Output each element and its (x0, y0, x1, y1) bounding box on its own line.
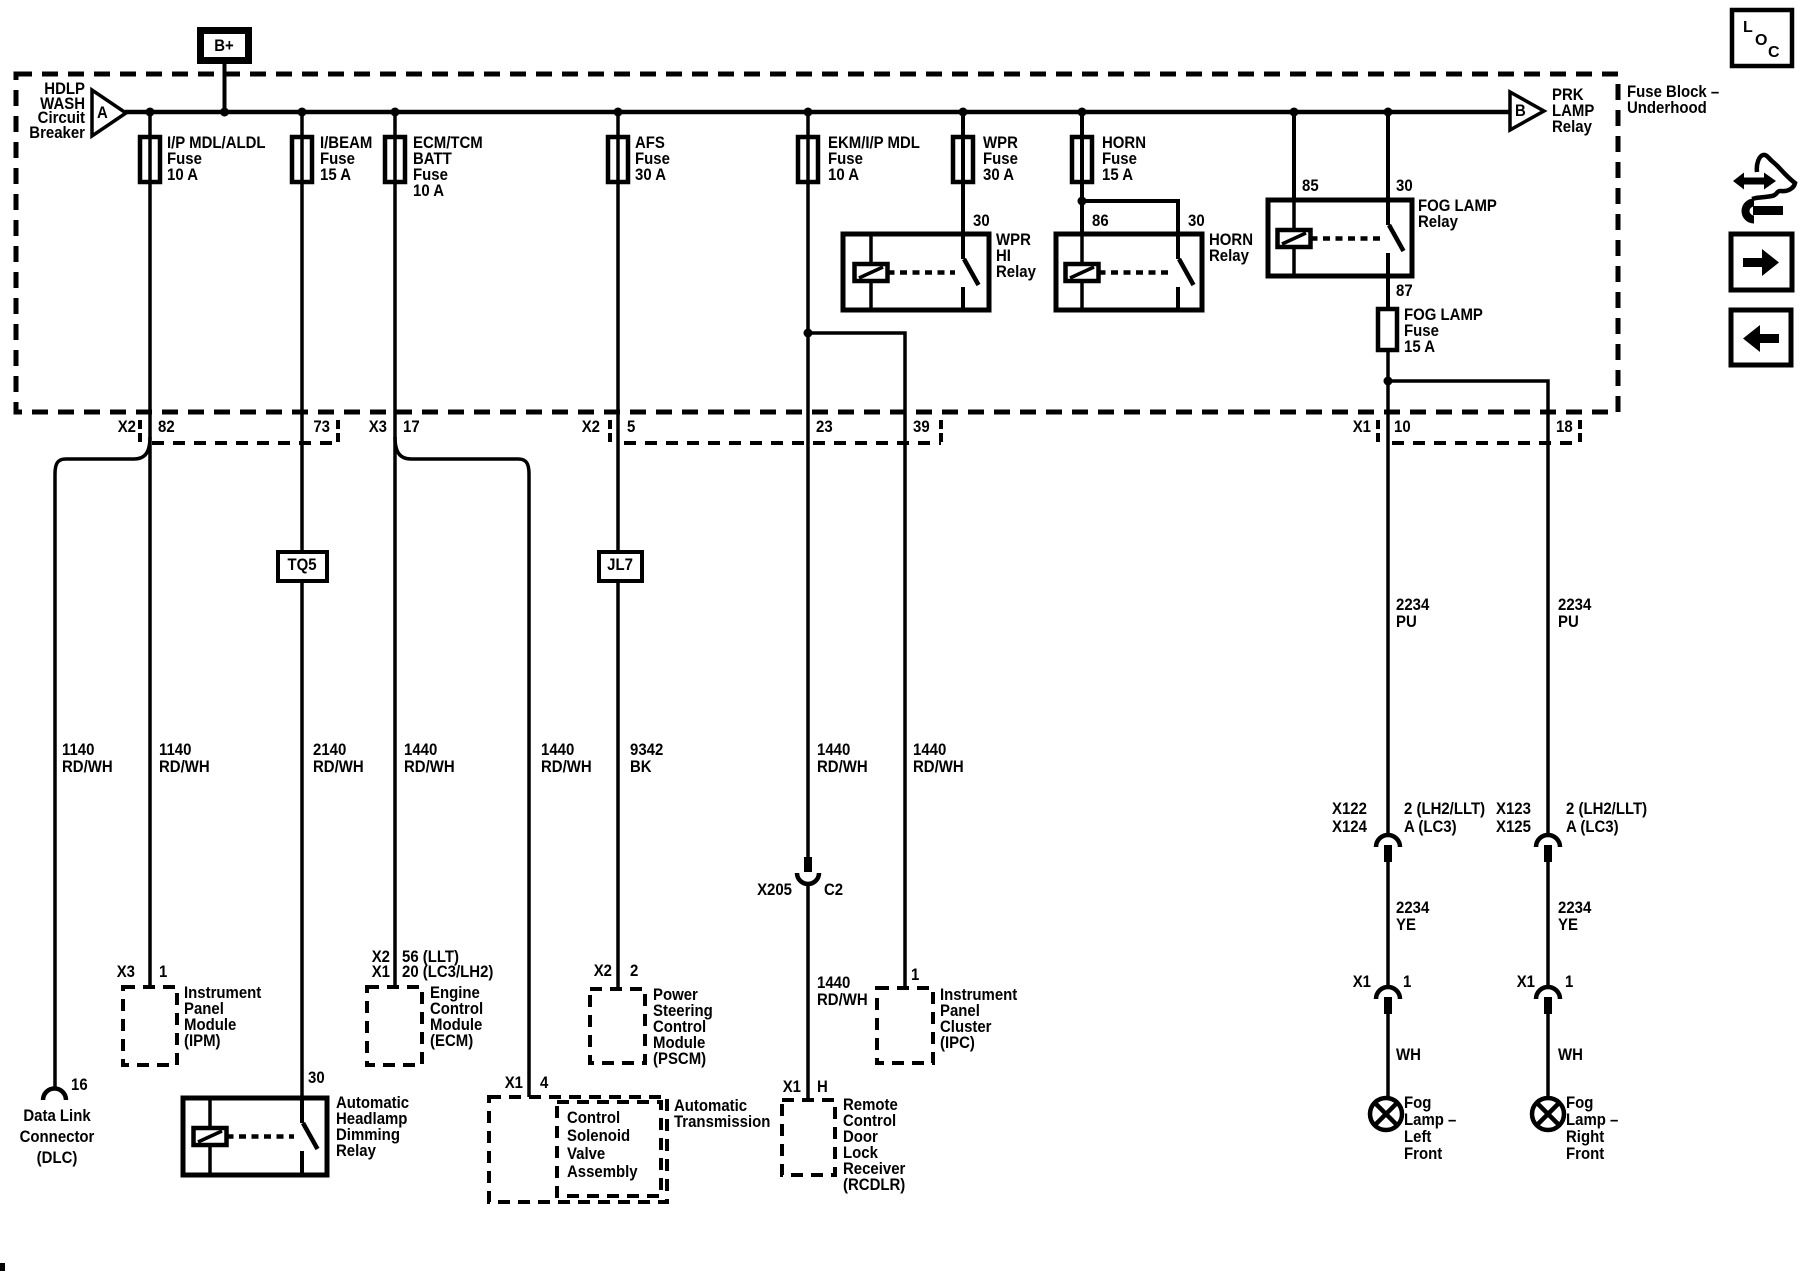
wire label 1140 RD/WH (IPM) (159, 741, 210, 776)
svg-text:15 A: 15 A (1404, 338, 1435, 356)
pins X1 4 (CSVA) (505, 1074, 549, 1092)
battery feed B+ symbol (201, 31, 249, 61)
wire WPR fuse to WPR relay (961, 112, 965, 234)
svg-text:X1: X1 (505, 1074, 523, 1092)
wire X1 to left fog lamp (WH) (1386, 1014, 1390, 1098)
svg-text:X1: X1 (783, 1078, 801, 1096)
svg-text:RD/WH: RD/WH (817, 758, 868, 776)
svg-text:RD/WH: RD/WH (62, 758, 113, 776)
pin 16 label (DLC) (71, 1076, 88, 1094)
svg-text:PU: PU (1396, 613, 1417, 631)
label Control Solenoid Valve Assembly (567, 1109, 638, 1181)
wire EKM/I/P MDL fuse to RCDLR (1440 RD/WH) (806, 112, 810, 857)
connector X3 (pin 17) labels (369, 418, 420, 436)
LOC reference box (1732, 10, 1792, 66)
svg-text:Relay: Relay (1209, 247, 1249, 265)
svg-text:H: H (817, 1078, 828, 1096)
label Engine Control Module (ECM) (430, 984, 483, 1050)
svg-text:(DLC): (DLC) (37, 1149, 78, 1167)
inline connector X123/X125 (right fog lamp) (1536, 835, 1560, 862)
right front fog lamp (1532, 1098, 1564, 1130)
junction fog lamp feed split (1384, 377, 1393, 386)
svg-text:X1: X1 (1353, 973, 1371, 991)
label Instrument Panel Cluster (IPC) (940, 986, 1018, 1052)
svg-text:RD/WH: RD/WH (913, 758, 964, 776)
labels X1 1 (right fog lamp) (1517, 973, 1574, 991)
label Fuse Block - Underhood (1627, 83, 1719, 117)
harness routing icon (double arrow with scribble and wrench) (1733, 155, 1795, 220)
label Power Steering Control Module (PSCM) (653, 986, 713, 1068)
svg-text:X1: X1 (372, 963, 390, 981)
junction bus/fog relay switch (1384, 108, 1393, 117)
fuse WPR 30 A (953, 134, 1018, 184)
pin 86 label (HORN relay) (1092, 212, 1109, 230)
svg-text:A: A (97, 104, 108, 122)
bus wire (battery positive rail) (125, 110, 1510, 115)
relay HORN (1056, 234, 1202, 310)
svg-text:Relay: Relay (1552, 118, 1592, 136)
svg-text:X2: X2 (582, 418, 600, 436)
fuse I/BEAM 15 A (292, 134, 372, 184)
wire AFS fuse to PSCM (9342 BK) (616, 112, 620, 989)
svg-text:BK: BK (630, 758, 652, 776)
inline connector X205 C2 (797, 857, 819, 884)
svg-text:Relay: Relay (336, 1142, 376, 1160)
label FOG LAMP Relay (1418, 197, 1497, 231)
svg-text:RD/WH: RD/WH (817, 991, 868, 1009)
svg-text:JL7: JL7 (607, 556, 633, 574)
svg-text:1440: 1440 (541, 741, 574, 759)
junction bus/EKM/I/P MDL fuse (804, 108, 813, 117)
label HORN Relay (1209, 231, 1253, 265)
svg-text:2 (LH2/LLT): 2 (LH2/LLT) (1404, 800, 1485, 818)
wire label 1440 RD/WH (IPC) (913, 741, 964, 776)
svg-text:Breaker: Breaker (29, 124, 85, 142)
svg-text:Connector: Connector (20, 1128, 95, 1146)
svg-text:Assembly: Assembly (567, 1163, 638, 1181)
power steering control module (PSCM) box (590, 989, 645, 1063)
label Automatic Transmission (674, 1097, 770, 1131)
pin 30 label (WPR HI relay) (973, 212, 990, 230)
svg-text:Lamp –: Lamp – (1566, 1111, 1618, 1129)
junction bus/fog relay coil (1290, 108, 1299, 117)
svg-text:30 A: 30 A (983, 166, 1014, 184)
label Remote Control Door Lock Receiver (RCDLR) (843, 1096, 905, 1194)
svg-text:16: 16 (71, 1076, 88, 1094)
svg-text:(IPC): (IPC) (940, 1034, 975, 1052)
fuse block - underhood dashed border (16, 74, 1618, 412)
connector X1 pin 1 (left fog lamp) (1376, 987, 1400, 1014)
wire HORN fuse to HORN relay pin 86 (1080, 112, 1084, 234)
junction EKM wire / IPC branch (804, 329, 813, 338)
svg-text:X2: X2 (594, 962, 612, 980)
junction B+/bus (220, 108, 229, 117)
forward page arrow box (1731, 234, 1792, 290)
svg-text:2 (LH2/LLT): 2 (LH2/LLT) (1566, 800, 1647, 818)
svg-text:(PSCM): (PSCM) (653, 1050, 706, 1068)
wire label WH (right fog lamp) (1558, 1046, 1583, 1064)
instrument panel cluster (IPC) box (877, 988, 933, 1063)
data link connector (DLC) pin 16 arc (43, 1089, 66, 1101)
svg-text:87: 87 (1396, 282, 1413, 300)
left front fog lamp (1370, 1098, 1402, 1130)
svg-text:TQ5: TQ5 (287, 556, 316, 574)
svg-text:WH: WH (1396, 1046, 1421, 1064)
svg-text:X3: X3 (369, 418, 387, 436)
svg-text:30: 30 (308, 1069, 325, 1087)
wire label 2140 RD/WH (dimming relay) (313, 741, 364, 776)
svg-text:PU: PU (1558, 613, 1579, 631)
wire X123 to X1 (2234 YE right) (1546, 862, 1550, 987)
wire I/P MDL/ALDL fuse to IPM (1140 RD/WH) (148, 112, 152, 987)
wire branch to HORN relay pin 30 (1082, 201, 1178, 234)
wire label 1140 RD/WH (DLC) (62, 741, 113, 776)
svg-text:WH: WH (1558, 1046, 1583, 1064)
svg-text:9342: 9342 (630, 741, 663, 759)
wire label 2234 PU (left) (1396, 596, 1429, 631)
fuse ECM/TCM BATT 10 A (385, 134, 483, 200)
svg-text:Solenoid: Solenoid (567, 1127, 630, 1145)
svg-text:1440: 1440 (817, 974, 850, 992)
junction bus/ECM/TCM BATT fuse (391, 108, 400, 117)
svg-text:1: 1 (1403, 973, 1411, 991)
circuit breaker A (HDLP WASH) triangle (92, 90, 126, 136)
remote control door lock receiver (RCDLR) box (782, 1100, 835, 1175)
svg-text:Relay: Relay (1418, 213, 1458, 231)
svg-text:A (LC3): A (LC3) (1566, 818, 1619, 836)
junction bus/HORN fuse (1078, 108, 1087, 117)
svg-text:B: B (1515, 102, 1526, 120)
svg-text:1440: 1440 (817, 741, 850, 759)
instrument panel module (IPM) box (123, 987, 177, 1065)
svg-text:30: 30 (973, 212, 990, 230)
svg-text:RD/WH: RD/WH (404, 758, 455, 776)
svg-text:73: 73 (313, 418, 330, 436)
wire label 1440 RD/WH (RCDLR lower) (817, 974, 868, 1009)
wire X1 to right fog lamp (WH) (1546, 1014, 1550, 1098)
svg-text:15 A: 15 A (1102, 166, 1133, 184)
svg-text:X2: X2 (118, 418, 136, 436)
svg-text:86: 86 (1092, 212, 1109, 230)
svg-text:17: 17 (403, 418, 420, 436)
svg-text:39: 39 (913, 418, 930, 436)
svg-text:1440: 1440 (404, 741, 437, 759)
svg-text:4: 4 (540, 1074, 548, 1092)
labels X122 X124 pins (1332, 800, 1485, 836)
wire label 1440 RD/WH (CSVA) (541, 741, 592, 776)
junction HORN fuse / pin 30 branch (1078, 197, 1087, 206)
svg-text:O: O (1755, 32, 1767, 49)
svg-text:2234: 2234 (1558, 899, 1591, 917)
relay FOG LAMP (1268, 200, 1412, 276)
label Fog Lamp - Right Front (1566, 1094, 1618, 1163)
pin 87 label (FOG LAMP relay) (1396, 282, 1413, 300)
svg-text:30: 30 (1188, 212, 1205, 230)
fuse FOG LAMP 15 A (1378, 306, 1483, 356)
back page arrow box (1731, 310, 1791, 365)
automatic headlamp dimming relay (183, 1098, 327, 1175)
svg-text:2: 2 (630, 962, 638, 980)
svg-text:1: 1 (911, 966, 919, 984)
svg-text:X205: X205 (757, 881, 792, 899)
connector X1 (pins 10, 18) strip (1353, 418, 1580, 443)
svg-text:1: 1 (159, 963, 167, 981)
relay WPR HI (843, 234, 989, 310)
fuse EKM/I/P MDL 10 A (798, 134, 920, 184)
label Data Link Connector (DLC) (20, 1107, 95, 1167)
control solenoid valve assembly box (557, 1102, 661, 1196)
label Automatic Headlamp Dimming Relay (336, 1094, 409, 1160)
wire X122 to X1 (2234 YE left) (1386, 862, 1390, 987)
pins X2 2 (PSCM) (594, 962, 639, 980)
wire branch to control solenoid valve assembly (1440 RD/WH) (395, 437, 529, 1097)
svg-text:X123: X123 (1496, 800, 1531, 818)
junction bus/I/P MDL/ALDL fuse (146, 108, 155, 117)
svg-text:Lamp –: Lamp – (1404, 1111, 1456, 1129)
wire B+ to bus (223, 64, 227, 112)
svg-text:85: 85 (1302, 177, 1319, 195)
svg-text:X124: X124 (1332, 818, 1367, 836)
label PRK LAMP Relay (1552, 86, 1595, 136)
svg-text:YE: YE (1558, 916, 1578, 934)
connector X2 (pins 5, 23, 39) strip (582, 418, 941, 443)
wire label WH (left fog lamp) (1396, 1046, 1421, 1064)
svg-text:Relay: Relay (996, 263, 1036, 281)
svg-text:1140: 1140 (62, 741, 95, 759)
svg-text:X1: X1 (1517, 973, 1535, 991)
wire bus to FOG LAMP relay pin 85 (1292, 112, 1296, 200)
scan speck bottom-left (0, 1263, 5, 1271)
wire I/BEAM fuse to dimming relay (2140 RD/WH) (300, 112, 304, 1098)
svg-text:23: 23 (816, 418, 833, 436)
pin 30 label (HORN relay) (1188, 212, 1205, 230)
fuse I/P MDL/ALDL 10 A (140, 134, 266, 184)
svg-text:1440: 1440 (913, 741, 946, 759)
engine control module (ECM) box (367, 987, 422, 1065)
svg-text:20 (LC3/LH2): 20 (LC3/LH2) (402, 963, 493, 981)
svg-text:82: 82 (158, 418, 175, 436)
wire label 1440 RD/WH (ECM) (404, 741, 455, 776)
automatic transmission outer box (489, 1097, 667, 1202)
wire label 2234 PU (right) (1558, 596, 1591, 631)
svg-text:Fog: Fog (1566, 1094, 1593, 1112)
pin 1 (IPC) (911, 966, 919, 984)
labels X1 1 (left fog lamp) (1353, 973, 1412, 991)
svg-text:X125: X125 (1496, 818, 1531, 836)
wire branch to DLC (1140 RD/WH) (55, 437, 150, 1089)
wire branch to IPC (1440 RD/WH) (808, 333, 905, 988)
svg-text:Data Link: Data Link (23, 1107, 90, 1125)
label WPR HI Relay (996, 231, 1036, 281)
svg-text:10 A: 10 A (828, 166, 859, 184)
svg-text:10: 10 (1394, 418, 1411, 436)
PRK LAMP relay triangle B (1510, 92, 1544, 130)
svg-text:2140: 2140 (313, 741, 346, 759)
svg-text:10 A: 10 A (167, 166, 198, 184)
junction bus/I/BEAM fuse (298, 108, 307, 117)
wire label 9342 BK (PSCM) (630, 741, 663, 776)
svg-text:2234: 2234 (1396, 899, 1429, 917)
wire FOG LAMP relay 87 to fuse (1386, 276, 1390, 309)
pins X2 56 / X1 20 (ECM) (372, 948, 494, 981)
svg-text:RD/WH: RD/WH (541, 758, 592, 776)
svg-text:18: 18 (1556, 418, 1573, 436)
connector X2 (pins 82, 73) strip (118, 418, 338, 443)
connector X1 pin 1 (right fog lamp) (1536, 987, 1560, 1014)
splice pack TQ5 (278, 552, 327, 581)
svg-text:X122: X122 (1332, 800, 1367, 818)
svg-text:10 A: 10 A (413, 182, 444, 200)
splice pack JL7 (599, 552, 642, 581)
junction bus/WPR fuse (959, 108, 968, 117)
svg-text:Front: Front (1404, 1145, 1443, 1163)
svg-text:1140: 1140 (159, 741, 192, 759)
wire ECM/TCM BATT fuse to ECM (1440 RD/WH) (393, 112, 397, 987)
svg-text:RD/WH: RD/WH (313, 758, 364, 776)
labels X123 X125 pins (1496, 800, 1647, 836)
fuse AFS 30 A (608, 134, 670, 184)
svg-text:Control: Control (567, 1109, 620, 1127)
fuse HORN 15 A (1072, 134, 1146, 184)
svg-text:YE: YE (1396, 916, 1416, 934)
svg-text:15 A: 15 A (320, 166, 351, 184)
inline connector X122/X124 (left fog lamp) (1376, 835, 1400, 862)
labels X205 / C2 (757, 881, 843, 899)
svg-text:1: 1 (1565, 973, 1573, 991)
wire label 1440 RD/WH (RCDLR) (817, 741, 868, 776)
svg-text:Transmission: Transmission (674, 1113, 770, 1131)
label HDLP WASH Circuit Breaker (29, 80, 85, 142)
pins X3 1 (IPM) (117, 963, 168, 981)
svg-text:X3: X3 (117, 963, 135, 981)
svg-text:Valve: Valve (567, 1145, 605, 1163)
svg-text:(RCDLR): (RCDLR) (843, 1176, 905, 1194)
svg-text:A (LC3): A (LC3) (1404, 818, 1457, 836)
svg-text:2234: 2234 (1558, 596, 1591, 614)
svg-text:RD/WH: RD/WH (159, 758, 210, 776)
svg-text:L: L (1743, 19, 1753, 36)
svg-text:C: C (1768, 44, 1780, 61)
svg-text:B+: B+ (214, 37, 234, 55)
pin 30 label (FOG LAMP relay) (1396, 177, 1413, 195)
svg-text:Underhood: Underhood (1627, 99, 1707, 117)
wire FOG LAMP fuse down to left fog lamp (2234 PU) (1386, 350, 1390, 834)
wire bus to FOG LAMP relay pin 30 (1386, 112, 1390, 200)
label Instrument Panel Module (IPM) (184, 984, 262, 1050)
svg-text:5: 5 (627, 418, 635, 436)
svg-text:Front: Front (1566, 1145, 1605, 1163)
pins X1 H (RCDLR) (783, 1078, 828, 1096)
pin 30 label (dimming relay) (308, 1069, 325, 1087)
svg-text:Left: Left (1404, 1128, 1432, 1146)
pin 85 label (FOG LAMP relay) (1302, 177, 1319, 195)
wire label 2234 YE (right) (1558, 899, 1591, 934)
svg-text:30 A: 30 A (635, 166, 666, 184)
svg-text:2234: 2234 (1396, 596, 1429, 614)
svg-text:(IPM): (IPM) (184, 1032, 221, 1050)
wire branch to right fog lamp (2234 PU) (1388, 381, 1548, 834)
svg-text:Fog: Fog (1404, 1094, 1431, 1112)
svg-text:(ECM): (ECM) (430, 1032, 473, 1050)
svg-text:30: 30 (1396, 177, 1413, 195)
wire segment X205 to RCDLR (806, 884, 810, 1100)
svg-text:Right: Right (1566, 1128, 1605, 1146)
wire label 2234 YE (left) (1396, 899, 1429, 934)
label Fog Lamp - Left Front (1404, 1094, 1456, 1163)
junction bus/AFS fuse (614, 108, 623, 117)
svg-text:X1: X1 (1353, 418, 1371, 436)
svg-text:C2: C2 (824, 881, 843, 899)
